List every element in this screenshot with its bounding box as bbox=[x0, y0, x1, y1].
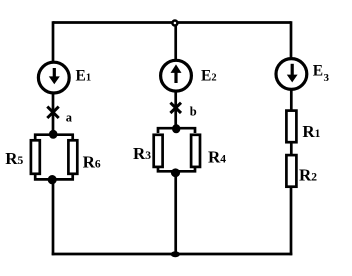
svg-text:a: a bbox=[66, 111, 73, 125]
wire middle block top connector bbox=[158, 128, 195, 133]
switch X mark b bbox=[170, 103, 181, 113]
junction dot middle block bottom bbox=[171, 168, 180, 177]
wire E1 to node a bbox=[52, 93, 55, 132]
svg-text:E: E bbox=[313, 63, 323, 80]
junction ring top node bbox=[172, 21, 177, 26]
wire middle block bottom connector bbox=[158, 167, 195, 171]
switch X mark a bbox=[47, 107, 58, 118]
wire R1 to R2 bbox=[290, 142, 293, 156]
wire top rail bbox=[53, 21, 291, 24]
svg-text:R1: R1 bbox=[302, 122, 320, 141]
resistor R5 bbox=[31, 140, 40, 174]
wire bottom rail bbox=[52, 253, 293, 256]
wire R2 to bottom rail bbox=[290, 186, 293, 255]
wire E2 top lead bbox=[174, 25, 177, 60]
current source E1 bbox=[38, 62, 69, 93]
wire left branch to bottom rail bbox=[52, 179, 55, 255]
svg-text:R3: R3 bbox=[133, 144, 151, 163]
wire E1 top lead bbox=[52, 21, 55, 62]
current source E2 bbox=[161, 60, 192, 91]
svg-text:R5: R5 bbox=[5, 149, 23, 168]
wire E2 to node b bbox=[174, 91, 177, 125]
wire left block bottom connector bbox=[35, 175, 72, 180]
svg-text:R4: R4 bbox=[208, 147, 226, 166]
junction dot middle block top bbox=[172, 124, 180, 133]
svg-text:R2: R2 bbox=[299, 165, 317, 184]
wire E3 top lead bbox=[290, 21, 293, 59]
wire E3 to R1 bbox=[290, 89, 293, 110]
svg-text:E1: E1 bbox=[76, 67, 92, 84]
resistor R6 bbox=[68, 140, 77, 174]
svg-text:E2: E2 bbox=[201, 67, 217, 84]
resistor R4 bbox=[191, 135, 200, 167]
wire middle branch to bottom rail bbox=[174, 171, 177, 255]
svg-text:3: 3 bbox=[324, 72, 330, 84]
junction dot left block top bbox=[49, 130, 58, 139]
svg-text:b: b bbox=[190, 105, 197, 119]
svg-text:R6: R6 bbox=[83, 153, 101, 172]
junction dot left block bottom bbox=[48, 175, 57, 184]
resistor R3 bbox=[154, 135, 163, 167]
current source E3 bbox=[276, 59, 307, 90]
junction dot bottom node bbox=[171, 251, 180, 257]
resistor R1 bbox=[286, 111, 296, 143]
wire left block top connector bbox=[35, 135, 72, 140]
resistor R2 bbox=[286, 155, 296, 187]
